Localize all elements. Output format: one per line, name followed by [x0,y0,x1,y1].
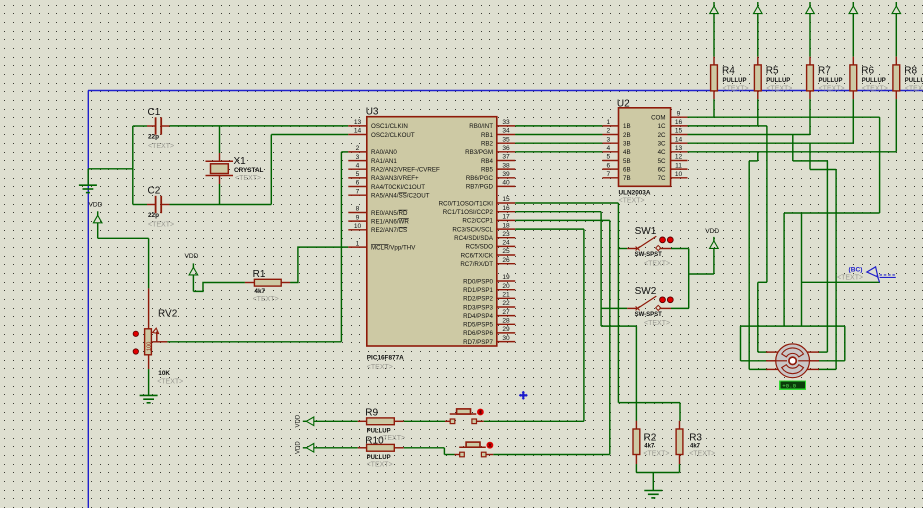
wire VDD to RV2 [98,238,149,288]
wire RB2 to U2 pin 3 [515,142,602,144]
resistor R4 (PULLUP) [710,2,749,99]
wire RB0 to U2 pin 1 [515,125,602,127]
sheet border [88,91,923,508]
wire R7 stem [809,99,811,134]
svg-text:R10: R10 [365,436,384,447]
svg-text:SW1: SW1 [635,226,657,237]
svg-text:36: 36 [502,145,510,152]
svg-text:RE1/AN6/WR: RE1/AN6/WR [371,218,409,225]
svg-text:R8: R8 [904,66,917,77]
svg-text:RD3/PSP3: RD3/PSP3 [463,304,493,311]
svg-text:CRYSTAL: CRYSTAL [234,167,264,174]
svg-text:1B: 1B [623,123,631,130]
svg-text:14: 14 [675,136,683,143]
resistor R5 (PULLUP) [754,2,793,99]
svg-text:4: 4 [356,162,360,169]
svg-text:RA0/AN0: RA0/AN0 [371,149,397,156]
resistor R8 (PULLUP) [892,2,923,99]
svg-text:<TEXT>: <TEXT> [148,221,174,228]
svg-text:3B: 3B [623,141,631,148]
resistor R7 (PULLUP) [806,2,845,99]
svg-text:<TEXT>: <TEXT> [253,296,279,303]
svg-text:ULN2003A: ULN2003A [619,189,651,196]
wire OSC1 net [170,125,349,127]
svg-text:5: 5 [356,171,360,178]
svg-text:VDD: VDD [185,253,199,260]
svg-text:PULLUP: PULLUP [862,78,886,84]
svg-text:22p: 22p [148,212,159,219]
svg-text:MCLR/Vpp/THV: MCLR/Vpp/THV [371,244,416,251]
svg-text:33: 33 [502,119,510,126]
svg-text:40: 40 [502,180,510,187]
button (RC2) [455,442,494,457]
svg-text:RV2: RV2 [158,309,178,320]
svg-text:5B: 5B [623,158,631,165]
svg-text:SW2: SW2 [635,286,657,297]
svg-text:RA1/AN1: RA1/AN1 [371,158,397,165]
svg-text:35: 35 [502,136,510,143]
svg-text:10K: 10K [158,370,170,377]
resistor R9 [358,407,405,442]
power flag VDD (R9) [296,414,358,427]
svg-text:RC5/SDO: RC5/SDO [465,244,493,251]
origin marker [519,391,528,400]
svg-text:<TEXT>: <TEXT> [643,450,669,457]
svg-text:5: 5 [606,154,610,161]
svg-text:16: 16 [502,205,510,212]
svg-text:RC6/TX/CK: RC6/TX/CK [461,252,494,259]
svg-text:23: 23 [502,231,510,238]
svg-text:8: 8 [356,206,360,213]
svg-text:<TEXT>: <TEXT> [862,86,888,93]
svg-text:X1: X1 [234,156,247,167]
svg-text:3: 3 [356,154,360,161]
wire 4C net [688,152,897,370]
svg-text:18: 18 [502,222,510,229]
svg-text:15: 15 [502,196,510,203]
svg-text:RB3/PGM: RB3/PGM [465,149,493,156]
wire RV2 wiper to RA0 [167,152,348,342]
svg-text:2: 2 [606,128,610,135]
svg-text:7: 7 [606,171,610,178]
svg-text:R4: R4 [722,66,735,77]
svg-text:2B: 2B [623,132,631,139]
svg-text:RC1/T1OSI/CCP2: RC1/T1OSI/CCP2 [443,209,494,216]
svg-text:RD1/PSP1: RD1/PSP1 [463,287,493,294]
capacitor C1 [133,107,174,150]
svg-text:<TEXT>: <TEXT> [766,86,792,93]
svg-text:<TEXT>: <TEXT> [367,364,393,371]
svg-text:VDD: VDD [705,228,719,235]
wire R2/R3 join [636,464,679,472]
svg-text:3C: 3C [658,141,666,148]
svg-text:100: 100 [147,342,153,351]
svg-text:9: 9 [356,214,360,221]
svg-text:6B: 6B [623,166,631,173]
svg-text:13: 13 [354,119,362,126]
svg-text:22p: 22p [148,133,159,140]
svg-text:10: 10 [675,171,683,178]
svg-text:26: 26 [502,257,510,264]
svg-text:34: 34 [502,128,510,135]
svg-text:29: 29 [502,326,510,333]
svg-text:RC3/SCK/SCL: RC3/SCK/SCL [452,226,493,233]
svg-text:<TEXT>: <TEXT> [644,260,670,267]
svg-text:37: 37 [502,154,510,161]
microcontroller U3 (PIC16F877A) [348,107,515,372]
svg-text:RD6/PSP6: RD6/PSP6 [463,330,493,337]
svg-text:4: 4 [606,145,610,152]
svg-text:13: 13 [675,145,683,152]
svg-text:1: 1 [606,119,610,126]
svg-text:U2: U2 [617,99,630,110]
svg-text:7: 7 [356,188,360,195]
crystal X1 [206,126,264,205]
svg-text:RD0/PSP0: RD0/PSP0 [463,278,493,285]
wire RC1 to SW2/R2 [515,212,636,421]
svg-text:RB7/PGD: RB7/PGD [466,184,494,191]
svg-text:6: 6 [356,180,360,187]
svg-text:RB0/INT: RB0/INT [469,123,493,130]
svg-text:3: 3 [606,136,610,143]
wire RC3 to button1 [484,229,584,421]
svg-text:PIC16F877A: PIC16F877A [367,355,404,362]
svg-text:PULLUP: PULLUP [766,78,790,84]
button (RC3) [445,409,484,424]
switch SW2 [627,286,673,327]
svg-text:RB4: RB4 [481,158,494,165]
svg-text:PULLUP: PULLUP [905,78,923,84]
svg-text:SW-SPST: SW-SPST [635,252,663,258]
svg-text:OSC2/CLKOUT: OSC2/CLKOUT [371,132,415,139]
wire OSC2 net [170,135,349,205]
svg-text:RA5/AN4/SS/C2OUT: RA5/AN4/SS/C2OUT [371,193,430,200]
svg-text:U3: U3 [366,107,379,118]
wire 2C net [688,135,828,353]
svg-text:5C: 5C [658,158,666,165]
ground (left) [79,169,97,193]
ground (R2/R3) [644,473,662,498]
wire VDD to R1 [193,283,245,292]
svg-text:<TEXT>: <TEXT> [367,461,393,468]
svg-text:21: 21 [502,292,510,299]
svg-text:<TEXT>: <TEXT> [723,86,749,93]
svg-text:R2: R2 [644,433,657,444]
svg-text:<TEXT>: <TEXT> [819,86,845,93]
svg-text:30: 30 [502,335,510,342]
svg-text:PULLUP: PULLUP [723,78,747,84]
svg-text:+0.0: +0.0 [782,383,796,390]
resistor R10 [358,436,404,469]
wire 3C net [688,143,854,369]
wire R6 stem [852,99,854,143]
ground (RV2) [140,369,158,403]
svg-text:RD4/PSP4: RD4/PSP4 [463,313,493,320]
svg-text:<TEXT>: <TEXT> [837,274,863,281]
svg-text:16: 16 [675,119,683,126]
svg-text:RB5: RB5 [481,166,494,173]
wire R8 stem [895,99,897,152]
resistor R2 [633,421,669,464]
switch SW1 [627,226,673,267]
svg-text:11: 11 [675,162,682,169]
svg-text:39: 39 [502,171,510,178]
resistor R1 [245,269,290,303]
svg-text:<TEXT>: <TEXT> [148,143,174,150]
svg-text:10: 10 [354,223,362,230]
resistor R6 (PULLUP) [849,2,888,99]
svg-text:RC2/CCP1: RC2/CCP1 [462,218,493,225]
svg-text:RA3/AN3/VREF+: RA3/AN3/VREF+ [371,175,419,182]
svg-text:RD2/PSP2: RD2/PSP2 [463,296,493,303]
wire R1 to MCLR [290,247,348,282]
svg-text:4k7: 4k7 [644,444,655,450]
wire 1C net [688,126,768,352]
wire R4 stem [713,99,715,117]
svg-text:RE2/AN7/CS: RE2/AN7/CS [371,227,407,234]
wire RB1 to U2 pin 2 [515,134,602,136]
svg-text:20: 20 [502,283,510,290]
svg-text:VDD: VDD [296,441,302,454]
svg-text:PULLUP: PULLUP [819,78,843,84]
svg-text:RE0/AN5/RD: RE0/AN5/RD [371,210,408,217]
wire ground to C1/C2 [88,126,133,205]
terminal (BC) [837,267,896,283]
svg-text:4k7: 4k7 [254,288,265,295]
svg-text:<TEXT>: <TEXT> [235,175,261,182]
svg-text:17: 17 [502,214,510,221]
motor step display [780,381,806,390]
svg-text:RD7/PSP7: RD7/PSP7 [463,339,493,346]
svg-text:RB1: RB1 [481,132,494,139]
wire motor common box [741,326,845,361]
svg-text:RA2/AN2/VREF-/CVREF: RA2/AN2/VREF-/CVREF [371,167,440,174]
power flag VDD (R1) [185,253,199,291]
svg-text:4B: 4B [623,149,631,156]
svg-text:25: 25 [502,248,510,255]
svg-text:RB6/PGC: RB6/PGC [466,175,494,182]
svg-text:2C: 2C [658,132,666,139]
svg-text:R5: R5 [766,66,779,77]
motor M1 (stepper) [766,344,819,378]
svg-text:SW-SPST: SW-SPST [635,312,663,318]
svg-text:VDD: VDD [89,201,103,208]
wire COM net [688,117,880,326]
potentiometer RV2 [133,288,183,385]
wire SW1 to VDD [671,249,714,309]
svg-text:7B: 7B [623,175,631,182]
svg-text:COM: COM [651,115,665,122]
svg-text:22: 22 [502,300,510,307]
svg-text:4k7: 4k7 [690,444,701,450]
svg-text:RC7/RX/DT: RC7/RX/DT [460,261,493,268]
svg-text:4C: 4C [658,149,666,156]
svg-text:6C: 6C [658,166,666,173]
svg-text:C2: C2 [148,186,161,197]
svg-text:C1: C1 [148,107,161,118]
power flag VDD (left) [89,201,103,238]
wire R5 stem [757,99,759,126]
wire RB3 to U2 pin 4 [515,151,602,153]
svg-text:<TEXT>: <TEXT> [157,378,183,385]
svg-text:R7: R7 [818,66,831,77]
svg-text:15: 15 [675,128,683,135]
wire R9 to button1 [404,420,445,422]
wire button1 right [483,420,485,422]
svg-text:38: 38 [502,162,510,169]
svg-text:R3: R3 [689,433,702,444]
svg-text:9: 9 [677,110,681,117]
svg-text:24: 24 [502,240,510,247]
wire RC2 to button2 [493,220,610,454]
capacitor C2 [133,186,174,229]
wire RC0 to SW1/R3 [515,203,680,421]
svg-text:<TEXT>: <TEXT> [619,197,645,204]
svg-text:PULLUP: PULLUP [367,455,391,461]
svg-text:<TEXT>: <TEXT> [905,86,923,93]
svg-text:2: 2 [356,145,360,152]
svg-text:<TEXT>: <TEXT> [644,320,670,327]
svg-text:VDD: VDD [296,414,302,427]
svg-text:R1: R1 [253,269,266,280]
power flag VDD (SW) [705,228,719,259]
svg-text:RC0/T1OSO/T1CKI: RC0/T1OSO/T1CKI [439,200,494,207]
svg-text:R9: R9 [365,407,378,418]
svg-text:OSC1/CLKIN: OSC1/CLKIN [371,123,408,130]
svg-text:(BC): (BC) [849,267,863,274]
svg-text:19: 19 [502,274,510,281]
wire R10 to button2 [404,448,455,455]
driver U2 (ULN2003A) [602,99,687,205]
svg-text:14: 14 [354,128,362,135]
svg-text:12: 12 [675,154,683,161]
svg-text:RB2: RB2 [481,141,494,148]
svg-text:RA4/T0CKI/C1OUT: RA4/T0CKI/C1OUT [371,184,425,191]
svg-text:1C: 1C [658,123,666,130]
svg-text:RD5/PSP5: RD5/PSP5 [463,322,493,329]
power flag VDD (R10) [296,441,358,454]
svg-text:RC4/SDI/SDA: RC4/SDI/SDA [454,235,494,242]
resistor R3 [676,421,715,464]
svg-text:PULLUP: PULLUP [367,429,391,435]
svg-text:<TEXT>: <TEXT> [689,450,715,457]
svg-text:27: 27 [502,309,510,316]
svg-text:R6: R6 [861,66,874,77]
wire SW2 right [671,307,689,309]
svg-text:28: 28 [502,318,510,325]
svg-text:6: 6 [606,162,610,169]
svg-text:7C: 7C [658,175,666,182]
svg-text:1: 1 [356,240,360,247]
